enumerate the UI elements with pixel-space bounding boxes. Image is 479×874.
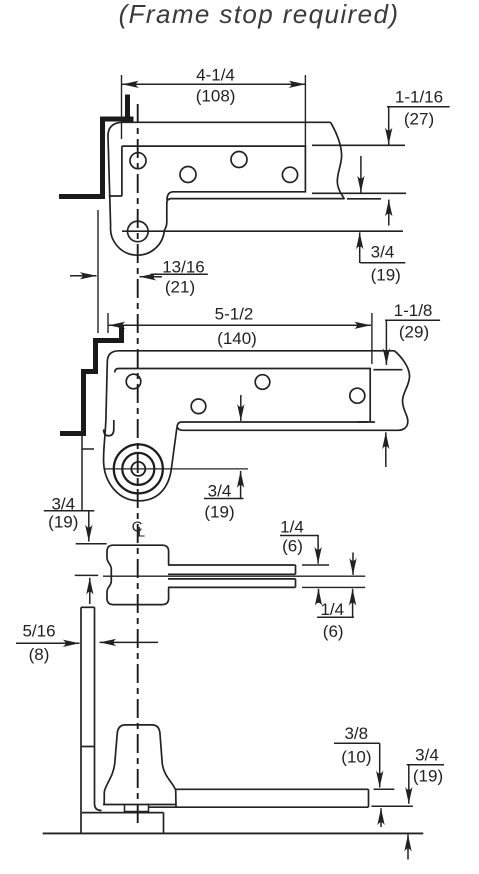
svg-text:(19): (19) [204, 503, 234, 522]
middle plate inner recess [104, 369, 403, 436]
svg-text:(108): (108) [196, 87, 236, 106]
top strap (side view) [168, 565, 296, 574]
svg-text:(27): (27) [404, 109, 434, 128]
frame stop (middle view, thick section line) [60, 325, 122, 434]
dimension 3/4 (19) at pivot centerline [204, 471, 244, 522]
svg-text:(19): (19) [371, 266, 401, 285]
pivot plane line [103, 575, 365, 577]
centerline symbol [132, 519, 146, 540]
floor line [43, 832, 424, 834]
frame stop (top view, thick section line) [59, 95, 134, 197]
svg-text:(19): (19) [413, 766, 443, 785]
pivot pedestal (bottom view) [104, 725, 176, 807]
svg-text:3/4: 3/4 [415, 746, 439, 765]
svg-text:(140): (140) [217, 329, 257, 348]
dimension 4-1/4 (108) [122, 66, 306, 147]
svg-text:4-1/4: 4-1/4 [196, 66, 235, 85]
dimension 1/4 (6) upper [280, 518, 319, 602]
dimension 1-1/8 (29) [385, 301, 440, 467]
svg-text:(21): (21) [165, 278, 195, 297]
door bottom plate [148, 789, 369, 807]
jamb plate (vertical) [81, 607, 164, 833]
title [119, 0, 400, 29]
bottom strap (side view) [168, 565, 365, 587]
svg-text:(6): (6) [323, 622, 344, 641]
hinge body (side view) [107, 545, 169, 604]
dimension 3/4 (19) bottom right [371, 746, 444, 860]
pivot hole (top view) [128, 221, 149, 242]
dimension 5/16 (8) [16, 622, 158, 664]
dimension 1-1/16 (27) [387, 88, 450, 145]
unlabeled arrow into middle plate [240, 395, 242, 421]
frame face line (top view) [122, 230, 403, 232]
screw holes (top view) [130, 152, 298, 183]
top plate break line (S-curve) [331, 122, 345, 198]
top plate inner recess outline [109, 146, 306, 200]
svg-text:(19): (19) [48, 513, 78, 532]
dimension 3/8 (10) [334, 724, 394, 789]
svg-text:1-1/16: 1-1/16 [395, 88, 443, 107]
middle plate outer outline with pivot boss [104, 351, 399, 501]
svg-text:5/16: 5/16 [22, 622, 55, 641]
svg-text:(8): (8) [29, 645, 50, 664]
top plate edge segments right of break [312, 145, 406, 199]
svg-text:(10): (10) [341, 748, 371, 767]
screw holes (middle view) [126, 374, 365, 413]
dimension 3/4 (19) left side [44, 494, 107, 604]
dimension 13/16 (21) [70, 210, 208, 333]
dimension 3/4 (19) right of top view [360, 156, 406, 285]
svg-text:(6): (6) [282, 536, 303, 555]
pivot bearing (middle view) [104, 444, 248, 493]
frame edge thin line below stop [82, 436, 94, 511]
svg-text:1-1/8: 1-1/8 [394, 301, 433, 320]
top plate outer outline [108, 122, 344, 255]
svg-text:5-1/2: 5-1/2 [215, 305, 254, 324]
middle plate break line (S-curve) [395, 351, 410, 431]
svg-text:(29): (29) [399, 323, 429, 342]
dimension 5-1/2 (140) [108, 305, 372, 365]
svg-text:3/4: 3/4 [208, 482, 232, 501]
svg-text:3/4: 3/4 [371, 243, 395, 262]
dimension 1/4 (6) lower [317, 553, 354, 642]
svg-text:3/8: 3/8 [344, 724, 368, 743]
svg-text:1/4: 1/4 [280, 518, 304, 537]
svg-text:13/16: 13/16 [162, 258, 205, 277]
svg-text:(Frame stop required): (Frame stop required) [119, 0, 400, 29]
pivot pin foot [125, 804, 149, 811]
vertical centerline (pivot axis) [137, 104, 139, 827]
floor bracket top edge [103, 804, 176, 806]
svg-text:1/4: 1/4 [320, 600, 344, 619]
svg-text:L: L [138, 525, 146, 540]
